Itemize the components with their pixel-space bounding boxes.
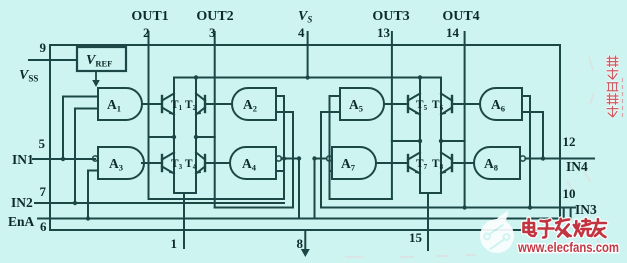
svg-text:3: 3 (209, 25, 216, 40)
svg-text:4: 4 (298, 25, 305, 40)
svg-text:OUT4: OUT4 (442, 9, 479, 24)
svg-text:OUT3: OUT3 (372, 9, 409, 24)
svg-text:9: 9 (40, 40, 47, 55)
svg-text:IN2: IN2 (11, 195, 33, 210)
svg-text:7: 7 (40, 184, 47, 199)
svg-text:IN3: IN3 (575, 202, 597, 217)
svg-text:www.elecfans.com: www.elecfans.com (517, 239, 619, 255)
svg-text:14: 14 (446, 25, 460, 40)
svg-text:2: 2 (143, 25, 150, 40)
svg-text:10: 10 (563, 186, 576, 201)
svg-text:13: 13 (377, 25, 391, 40)
svg-text:5: 5 (39, 136, 46, 151)
svg-text:OUT1: OUT1 (131, 9, 168, 24)
svg-text:IN1: IN1 (12, 152, 34, 167)
svg-text:EnA: EnA (8, 214, 35, 229)
svg-text:OUT2: OUT2 (196, 9, 233, 24)
svg-text:8: 8 (297, 236, 304, 251)
svg-text:12: 12 (563, 134, 576, 149)
svg-text:15: 15 (409, 230, 423, 245)
svg-text:1: 1 (171, 236, 178, 251)
svg-text:6: 6 (40, 219, 47, 234)
